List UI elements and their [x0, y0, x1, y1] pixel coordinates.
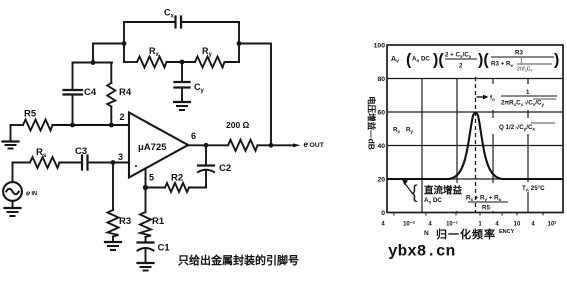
chart frame [387, 45, 563, 213]
svg-text:{: { [412, 182, 418, 202]
formula row 2: fo with arrow [477, 89, 558, 107]
node pin5 junction [143, 185, 148, 190]
x axis tick labels [381, 221, 556, 228]
wire feedback loop left vertical [123, 22, 125, 62]
pin 6 label [191, 131, 196, 141]
svg-text:C2: C2 [219, 163, 231, 174]
svg-text:10⁻²: 10⁻² [403, 221, 415, 228]
svg-text:10²: 10² [548, 221, 557, 228]
svg-text:Q 1/2 √Cy/Cx: Q 1/2 √Cy/Cx [499, 124, 535, 132]
node R4 bottom on pin2 wire [109, 123, 114, 128]
formula row 3: Q [499, 123, 555, 132]
svg-text:ybx8.cn: ybx8.cn [388, 243, 455, 261]
svg-text:e: e [304, 140, 309, 149]
svg-text:电压增益—dB: 电压增益—dB [367, 96, 377, 150]
svg-text:10⁻¹: 10⁻¹ [446, 221, 458, 228]
resistor R5 [11, 109, 130, 131]
svg-text:2 + Cx/Cy: 2 + Cx/Cy [445, 52, 472, 60]
capacitor Cx (top feedback) [124, 8, 239, 28]
white underlay for formula rows [389, 84, 561, 211]
pin 5 label [149, 173, 154, 183]
svg-text:200 Ω: 200 Ω [226, 120, 250, 130]
op-amp U1 uA725 [129, 113, 188, 178]
svg-text:IN: IN [32, 191, 38, 197]
svg-text:100: 100 [374, 43, 386, 50]
svg-text:): ) [554, 52, 559, 69]
resistor Rx [124, 46, 195, 68]
svg-text:R3: R3 [119, 216, 131, 227]
wire feedback right vertical from output node [239, 44, 271, 146]
svg-text:R3 + Rx: R3 + Rx [491, 61, 513, 69]
node feedback tap on output wire [269, 143, 274, 148]
svg-text:直流增益: 直流增益 [424, 185, 463, 197]
ground (Cy) [174, 100, 190, 110]
node junction Rx-Ry [180, 60, 185, 65]
capacitor C3 [75, 146, 129, 170]
capacitor C2 [198, 145, 231, 187]
svg-text:R5: R5 [24, 109, 37, 120]
pin 2 label [120, 112, 125, 122]
wire feedback loop right vertical [238, 22, 240, 62]
watermark ybx8.cn [388, 243, 455, 261]
capacitor C4 [64, 63, 97, 126]
label DC gain (Chinese) [402, 180, 462, 205]
svg-text:R5: R5 [482, 205, 490, 212]
svg-text:TA 25°C: TA 25°C [522, 185, 545, 193]
label TA 25C [522, 185, 545, 193]
ground (R5) [3, 125, 19, 149]
svg-text:2πRxCx √Cx/Cy: 2πRxCx √Cx/Cy [501, 100, 544, 108]
dashed line at peak [475, 77, 477, 212]
svg-text:C3: C3 [75, 146, 87, 157]
svg-text:e: e [26, 189, 30, 198]
caption: metal package pin numbers note [178, 253, 299, 267]
svg-text:C1: C1 [158, 243, 171, 254]
svg-text:ENCY: ENCY [499, 229, 515, 235]
resistor 200 ohm [226, 120, 294, 151]
svg-text:1: 1 [526, 89, 530, 96]
source eIN [3, 163, 37, 209]
svg-text:N: N [424, 230, 429, 237]
y axis title [367, 96, 377, 150]
wire top of C4/R4 parallel network [73, 62, 113, 64]
resistor R2 [146, 173, 207, 193]
svg-text:C4: C4 [84, 87, 97, 98]
capacitor C1 [138, 243, 171, 263]
svg-text:60: 60 [377, 110, 385, 117]
svg-text:40: 40 [377, 143, 385, 150]
node right tap of feedback loop [237, 41, 242, 46]
svg-text:2: 2 [459, 63, 463, 70]
svg-text:80: 80 [377, 76, 385, 83]
svg-text:Ao DC: Ao DC [412, 56, 430, 64]
label eOUT [293, 140, 325, 149]
wire pin 6 output [188, 144, 228, 146]
svg-text:R1: R1 [152, 216, 165, 227]
resistor Rs [13, 147, 82, 168]
svg-text:R3: R3 [515, 50, 523, 57]
resistor R4 [107, 63, 132, 126]
ground (R3) [105, 242, 121, 250]
pin 3 label [118, 152, 123, 162]
svg-text:R4: R4 [119, 87, 132, 98]
svg-text:)(: )( [433, 52, 444, 69]
formula DC gain fraction [466, 195, 508, 212]
svg-text:μA725: μA725 [138, 142, 167, 153]
svg-text:Ao DC: Ao DC [424, 197, 442, 205]
svg-text:3: 3 [118, 152, 123, 162]
node C4/R4 top [91, 60, 96, 65]
node C2 tap on pin6 wire [204, 143, 209, 148]
svg-text:归一化频率: 归一化频率 [436, 227, 496, 241]
svg-text:0: 0 [381, 210, 385, 217]
svg-text:)(: )( [478, 52, 489, 69]
x axis title [424, 227, 515, 241]
y axis value labels [374, 43, 386, 218]
wire from loop left tap to C4/R4 network [93, 44, 124, 63]
ground (C1) [138, 263, 154, 271]
node left tap of feedback loop [122, 41, 127, 46]
node C4 bottom on pin2 wire [70, 123, 75, 128]
svg-text:6: 6 [191, 131, 196, 141]
node R3 tap on pin3 wire [111, 160, 116, 165]
svg-text:OUT: OUT [310, 142, 325, 149]
capacitor Cy [175, 62, 205, 100]
chart gridlines [387, 79, 563, 213]
label Rx Ry inside chart [393, 127, 413, 135]
resistor Ry [195, 46, 239, 68]
svg-text:R2: R2 [171, 173, 183, 184]
svg-text:10: 10 [514, 222, 521, 228]
svg-text:5: 5 [149, 173, 154, 183]
resistor R3 [108, 163, 132, 243]
axis tick marks [394, 213, 543, 216]
formula row 1: Av [391, 50, 559, 73]
svg-text:20: 20 [377, 177, 385, 184]
svg-text:只给出金属封装的引脚号: 只给出金属封装的引脚号 [178, 253, 299, 267]
resistor R1 [140, 188, 165, 242]
svg-text:2: 2 [120, 112, 125, 122]
wire pin5 stub [145, 169, 147, 188]
ground (eIN) [5, 208, 21, 216]
response curve [387, 113, 563, 180]
